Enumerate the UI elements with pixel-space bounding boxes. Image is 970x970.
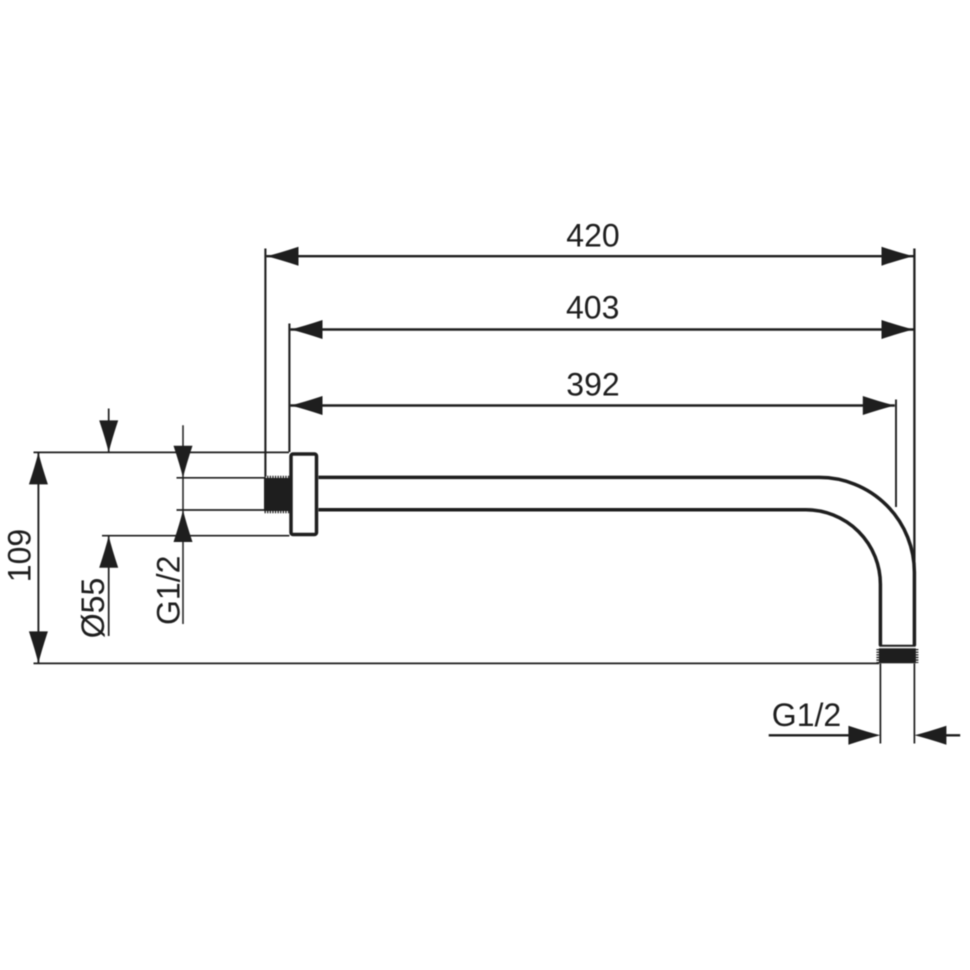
svg-text:392: 392: [566, 367, 619, 403]
svg-text:420: 420: [566, 218, 619, 254]
svg-text:109: 109: [1, 529, 37, 582]
svg-text:403: 403: [566, 289, 619, 325]
svg-text:G1/2: G1/2: [151, 556, 187, 625]
svg-text:G1/2: G1/2: [772, 697, 841, 733]
svg-text:Ø55: Ø55: [75, 578, 111, 638]
